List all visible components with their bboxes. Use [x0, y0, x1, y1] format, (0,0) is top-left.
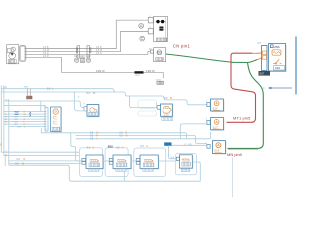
junction tag (blue) [164, 142, 171, 145]
red highlight wire [227, 53, 256, 122]
L3 pins [136, 158, 140, 164]
labels on L-top2 [87, 92, 173, 100]
L1 label plate [89, 163, 100, 167]
svg-text:0.3 G: 0.3 G [96, 53, 102, 55]
L4 label plate [182, 162, 191, 166]
svg-text:0.3 B: 0.3 B [96, 47, 102, 49]
M3 lower label [162, 117, 173, 120]
svg-text:E07: E07 [260, 72, 265, 76]
L2 bottom drop [123, 171, 125, 181]
ground symbol Gc [86, 58, 90, 62]
L1 under label [88, 169, 99, 172]
box B pin [206, 119, 210, 125]
svg-text:C15: C15 [164, 112, 169, 116]
U2 label plate [52, 127, 60, 130]
bus line mid2 [76, 135, 207, 143]
svg-text:0.3 W: 0.3 W [43, 50, 50, 52]
labels on main line [87, 145, 192, 150]
svg-text:Br: Br [170, 97, 173, 100]
svg-text:Br: Br [93, 92, 96, 95]
svg-text:FR2 W: FR2 W [146, 69, 155, 73]
svg-text:0.3 W: 0.3 W [96, 50, 103, 52]
left bus vertical V1 [1, 85, 79, 152]
housing H3 [134, 148, 166, 177]
svg-text:0.3 R: 0.3 R [43, 56, 49, 58]
inline connector IC2 [87, 46, 91, 58]
left bus vertical V5 [4, 156, 6, 167]
bundle labels [5, 112, 26, 129]
K1 pin 2 [148, 27, 153, 34]
component M2 [87, 105, 100, 118]
L4 under label [181, 169, 190, 172]
inline connector IC1 [76, 46, 79, 58]
svg-text:FR2 W: FR2 W [96, 69, 105, 73]
bundle wire B4 [4, 118, 45, 120]
component E16 (box A) [211, 99, 225, 112]
splice connector on L-top1 [24, 87, 32, 100]
component E18 (box C) [213, 141, 227, 155]
ground G28 labels [74, 55, 91, 58]
bus line mid1 [41, 133, 186, 139]
S1 pin [149, 48, 154, 53]
ground symbol Gb [80, 58, 84, 62]
switch S1 [154, 48, 166, 62]
labels left feed [15, 159, 25, 166]
bus stub to CB1 top [4, 105, 45, 107]
svg-text:B10: B10 [108, 145, 113, 149]
relay box L1 [86, 155, 104, 170]
bundle wire B2 [4, 113, 45, 115]
page boundary line (gray) [232, 158, 234, 198]
box C pin [205, 143, 210, 148]
wire L2-L3 [131, 160, 137, 162]
branch wire to M3 [130, 96, 158, 108]
svg-text:G: G [185, 145, 187, 147]
page link arrow [263, 86, 292, 90]
wire L1-L2 [103, 160, 110, 162]
green pigtail to fuse [248, 58, 262, 63]
M2 label plate [89, 112, 98, 115]
branch wire to L1 [71, 133, 83, 161]
housing H1 [80, 148, 103, 177]
L2 label plate [116, 163, 127, 167]
wire W3 (to switch S1) [26, 52, 150, 55]
component M3 [161, 104, 174, 117]
left bus vertical V2 [4, 85, 80, 155]
green descender wire [228, 63, 264, 149]
ground G2 [156, 80, 164, 85]
bundle wire B3 [4, 116, 45, 118]
svg-text:G: G [146, 146, 148, 148]
labels on mid bus [90, 132, 129, 141]
dark connector label [259, 71, 271, 76]
switch element [273, 59, 281, 64]
wire W4 (down to FR2 run) [26, 57, 163, 78]
wire to box B pin [180, 124, 207, 139]
svg-text:JF02: JF02 [135, 75, 141, 77]
svg-text:Gr: Gr [96, 132, 99, 135]
stub from U2 bottom [41, 128, 60, 133]
svg-text:0.3 B: 0.3 B [43, 47, 49, 49]
relay box L2 [113, 155, 132, 170]
relay box L3 [140, 155, 159, 170]
L4 pin [176, 157, 179, 160]
connector bar CB1 [44, 106, 48, 131]
svg-text:M: M [44, 106, 46, 108]
S1 label plate [156, 58, 164, 61]
connector housing CH1 [138, 100, 157, 108]
M1 label plate [8, 60, 16, 64]
motor/actuator M1 [7, 45, 19, 64]
wire labels mid-run [96, 47, 103, 55]
green highlight wire [166, 54, 248, 63]
component E17 (box B) [211, 118, 225, 131]
bundle wire B5 [4, 121, 45, 123]
housing H2 [105, 148, 128, 177]
K1 label plate [156, 38, 167, 41]
relay K1 [154, 17, 168, 42]
svg-text:E18: E18 [214, 149, 219, 153]
left feed lines to L1 [9, 161, 83, 164]
twisted pair mark [29, 111, 30, 116]
teal line L-top2 [1, 92, 207, 105]
bus line mid3 [76, 132, 211, 139]
M3 pin [156, 103, 160, 109]
left bus vertical V3 [8, 100, 10, 165]
connector housing CH2 [138, 111, 157, 116]
bundle wire B1 [4, 111, 45, 113]
svg-text:C7: C7 [258, 41, 262, 45]
svg-text:G: G [92, 148, 94, 150]
gray wire under green end [228, 148, 258, 150]
wire W1 (to relay pin 1) [26, 20, 148, 49]
relay box L4 [180, 155, 194, 169]
housing H4 [175, 154, 196, 175]
bundle wire B7 [9, 126, 45, 128]
connector C1 [20, 45, 27, 61]
wire W2 (to relay pin 2) [26, 31, 148, 51]
bundle wire B6 [4, 123, 45, 125]
fuse box label plate [274, 66, 285, 71]
svg-text:MT1 pin5: MT1 pin5 [233, 115, 251, 120]
wire main down to L4 [169, 145, 177, 158]
node circle N1 [139, 23, 144, 28]
svg-text:G: G [6, 152, 8, 154]
svg-text:MN pin5: MN pin5 [227, 152, 243, 157]
L3 label plate [143, 163, 154, 167]
svg-text:25A: 25A [274, 45, 279, 49]
bottom return line [9, 165, 201, 181]
svg-text:C23: C23 [275, 66, 280, 70]
teal line L-top1 [1, 89, 116, 92]
svg-text:E16: E16 [213, 107, 218, 111]
L2 pins [109, 158, 113, 164]
page boundary line (blue) [295, 36, 297, 94]
hook wire to M2 (outer) [74, 92, 84, 111]
left bus tick labels [0, 144, 7, 157]
labels on L-top1 [3, 86, 54, 93]
svg-text:CN pin1: CN pin1 [173, 44, 191, 49]
main wire tag-to-boxC [172, 144, 207, 146]
K1 pin 1 [148, 16, 153, 23]
node circle N2 [140, 36, 145, 41]
svg-text:G: G [122, 148, 124, 150]
svg-text:E17: E17 [213, 125, 218, 129]
control unit U2 [51, 107, 63, 133]
fuse box F1 [269, 44, 287, 73]
fuse box connector bar [258, 41, 268, 71]
wire labels near connector [43, 47, 50, 58]
svg-text:0.3 G: 0.3 G [43, 53, 49, 55]
box A pin [206, 101, 210, 107]
wire L3-L4 [158, 160, 176, 162]
M2 pin [84, 106, 87, 111]
orange pigtail at red end [252, 52, 262, 54]
ground symbol Ga [74, 58, 78, 62]
L3 under label [143, 169, 154, 172]
wire L4 right down [192, 162, 200, 181]
teal line L-top3 [4, 101, 85, 112]
fuse element [272, 50, 281, 55]
splice mark (black) [135, 71, 144, 73]
L2 under label [116, 169, 127, 172]
L1 pins [82, 158, 86, 164]
